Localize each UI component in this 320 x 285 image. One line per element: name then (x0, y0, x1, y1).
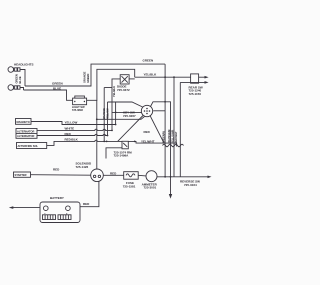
svg-text:RED/BLK: RED/BLK (65, 138, 79, 142)
wire light switch down (96, 100, 98, 169)
svg-text:725-1581: 725-1581 (123, 184, 136, 188)
solenoid SOL1 (91, 169, 104, 182)
wire solenoid to fuse (103, 174, 123, 176)
svg-text:AFTERFIRE SOL: AFTERFIRE SOL (18, 144, 39, 148)
svg-text:RED: RED (144, 130, 151, 134)
svg-text:ORANGE/B: ORANGE/B (167, 129, 171, 143)
wire key triangle right leg (150, 116, 164, 144)
wire pto bottom stub (106, 148, 122, 159)
wire afterfire red/blk (47, 140, 122, 145)
wire light switch out up (86, 69, 134, 100)
wire headlight L2 (20, 88, 24, 91)
wire battery positive to solenoid (80, 181, 99, 206)
svg-text:GREEN: GREEN (52, 82, 63, 86)
magneto box (16, 119, 32, 125)
svg-text:YELLOW: YELLOW (105, 108, 109, 120)
svg-text:HEADLIGHTS: HEADLIGHTS (14, 63, 34, 67)
svg-text:RED: RED (83, 202, 90, 206)
ammeter M1 (146, 171, 157, 182)
wire green bus (25, 64, 165, 86)
headlight L1 (8, 67, 20, 73)
svg-text:BLUE: BLUE (53, 86, 61, 90)
svg-text:RED: RED (110, 172, 117, 176)
svg-text:BLUE: BLUE (18, 76, 22, 83)
wire (103, 88, 105, 142)
wire pto right (128, 141, 176, 146)
wire alternator white (37, 129, 112, 130)
wire harness vertical 2 (173, 77, 175, 177)
svg-text:YEL/BLK: YEL/BLK (144, 72, 158, 76)
wire magneto yellow (31, 122, 116, 125)
wire key triangle left leg (118, 116, 143, 142)
pto switch box (122, 141, 128, 149)
wire blue to light switch (24, 90, 74, 100)
wire key switch top-right riser (151, 102, 171, 177)
light switch LS1 (73, 96, 87, 105)
wire harness vertical 5 (179, 82, 181, 176)
fuse F1 (124, 172, 139, 180)
svg-text:RED: RED (65, 132, 72, 136)
svg-text:725-0372: 725-0372 (117, 88, 130, 92)
battery B1 (40, 202, 80, 223)
wire (104, 87, 112, 89)
svg-text:RED: RED (53, 168, 60, 172)
svg-text:725-1150: 725-1150 (189, 92, 202, 96)
svg-text:GREEN: GREEN (143, 59, 154, 63)
wire key switch left upper (112, 111, 141, 113)
wire fuse to ammeter (138, 174, 146, 177)
svg-text:YEL/BLK: YEL/BLK (112, 86, 116, 97)
wire (107, 102, 109, 136)
svg-text:RED/WHT: RED/WHT (174, 131, 178, 144)
alternator box (16, 129, 37, 139)
wire diode to yel/blk (129, 78, 135, 80)
wire ground arrow down (170, 177, 172, 194)
svg-text:GREEN/W: GREEN/W (161, 131, 165, 144)
svg-text:YELLOW/R: YELLOW/R (170, 130, 174, 144)
wire key switch right (153, 110, 165, 112)
diode D1 (120, 75, 129, 84)
wire starter to solenoid (31, 174, 91, 177)
rear switch connector (180, 74, 208, 84)
svg-text:725-0893: 725-0893 (72, 108, 84, 112)
svg-text:ALTERNATOR: ALTERNATOR (17, 134, 35, 138)
wire main bus to reverse switch (157, 176, 208, 178)
headlight L2 (8, 85, 20, 91)
diode D1 feed wire (112, 79, 120, 130)
svg-text:725-1499A: 725-1499A (114, 154, 130, 158)
svg-text:MAGNETO: MAGNETO (17, 120, 30, 124)
svg-text:WHITE: WHITE (65, 127, 75, 131)
starter box (14, 172, 31, 177)
svg-text:STARTER: STARTER (15, 173, 27, 177)
wire key top vertical (115, 102, 117, 125)
wire alternator red (37, 134, 108, 135)
svg-text:ORANGE: ORANGE (83, 71, 87, 83)
svg-text:725-1426: 725-1426 (76, 165, 89, 169)
wire key switch left lower (97, 117, 145, 120)
svg-text:ALTERNATOR: ALTERNATOR (17, 129, 35, 133)
svg-text:725-3164: 725-3164 (184, 183, 197, 187)
svg-text:725-3001: 725-3001 (144, 186, 157, 190)
afterfire solenoid box (17, 143, 47, 149)
wire yel/blk run to rear switch (135, 76, 191, 78)
wire battery ground left (13, 207, 40, 209)
svg-text:YELLOW: YELLOW (65, 121, 78, 125)
svg-text:725-0267: 725-0267 (123, 114, 136, 118)
svg-text:BATTERY: BATTERY (50, 196, 64, 200)
wire headlight L1 to junction (20, 70, 25, 87)
harness squiggle (163, 144, 184, 147)
key switch KS1 (141, 105, 152, 116)
junction (164, 76, 166, 78)
wire green vertical right (164, 64, 166, 177)
wire key switch top (108, 102, 143, 107)
